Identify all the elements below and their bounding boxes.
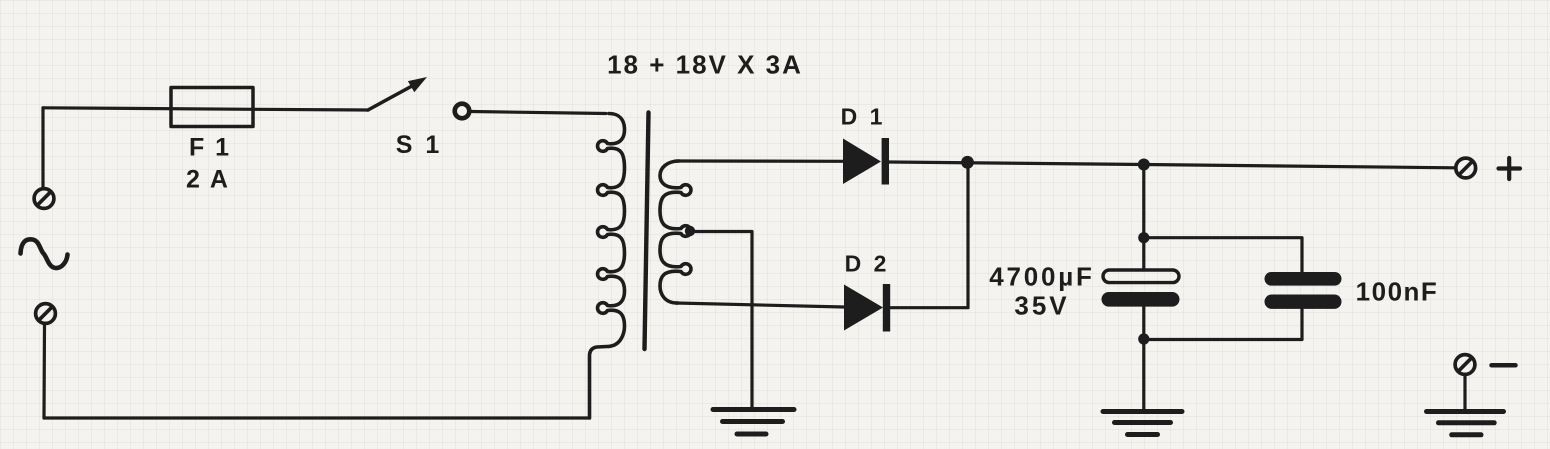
output terminal + <box>1456 158 1476 178</box>
svg-text:D 1: D 1 <box>841 104 886 130</box>
label + <box>1499 158 1521 179</box>
ground center tap <box>713 410 794 435</box>
junction dot center tap <box>685 226 695 236</box>
wire switch to transformer <box>472 112 607 114</box>
wire left vertical to top terminal <box>41 108 44 188</box>
wire secondary bottom to D2 <box>676 303 844 307</box>
AC source sine <box>21 239 68 268</box>
diode D2 <box>844 285 883 331</box>
junction dot C1/C2 top <box>1138 232 1149 243</box>
capacitor C2 plate bottom <box>1265 295 1342 309</box>
wire bottom terminal to bottom rail <box>42 324 46 418</box>
ground C1 <box>1103 412 1182 435</box>
wire C1/C2 bottom link <box>1144 309 1302 340</box>
AC terminal top <box>34 189 54 209</box>
wire C1 bottom <box>1142 307 1145 410</box>
svg-text:35V: 35V <box>1014 291 1069 321</box>
output terminal - <box>1455 355 1475 375</box>
label - <box>1492 363 1516 368</box>
AC terminal bottom <box>36 304 56 324</box>
capacitor C1 plate - <box>1102 292 1180 307</box>
switch S1 arrowhead <box>408 77 427 92</box>
switch S1 contact circle <box>455 104 470 119</box>
wire - terminal to ground <box>1463 375 1466 410</box>
junction dot C1/C2 bottom <box>1138 333 1149 344</box>
junction dot D1/D2 <box>961 156 974 169</box>
ground - terminal <box>1427 412 1504 435</box>
wire C1/C2 top link <box>1144 238 1302 272</box>
wire positive rail <box>889 162 1455 168</box>
svg-text:4700µF: 4700µF <box>989 262 1095 292</box>
wire secondary top to D1 <box>676 159 843 163</box>
wire bottom rail <box>44 416 590 419</box>
svg-text:F 1: F 1 <box>189 134 231 162</box>
svg-text:D 2: D 2 <box>845 251 890 277</box>
svg-text:2 A: 2 A <box>186 166 230 194</box>
svg-text:S 1: S 1 <box>396 131 443 159</box>
capacitor C2 100nF plate top <box>1265 272 1342 286</box>
wire AC live top rail <box>43 108 368 110</box>
transformer secondary winding <box>660 161 691 303</box>
wire D2 to positive rail <box>889 162 968 307</box>
switch S1 lever <box>368 86 412 110</box>
wire center tap <box>688 232 752 410</box>
transformer primary winding <box>590 114 625 419</box>
capacitor C1 4700uF plate + <box>1103 270 1179 283</box>
svg-text:18 + 18V X 3A: 18 + 18V X 3A <box>607 50 803 80</box>
transformer core <box>645 113 649 350</box>
diode D1 <box>843 139 881 185</box>
wire rail to C1 <box>1142 165 1145 271</box>
fuse F1 <box>171 88 253 127</box>
junction dot C1 top rail <box>1138 159 1150 171</box>
svg-text:100nF: 100nF <box>1356 277 1439 307</box>
